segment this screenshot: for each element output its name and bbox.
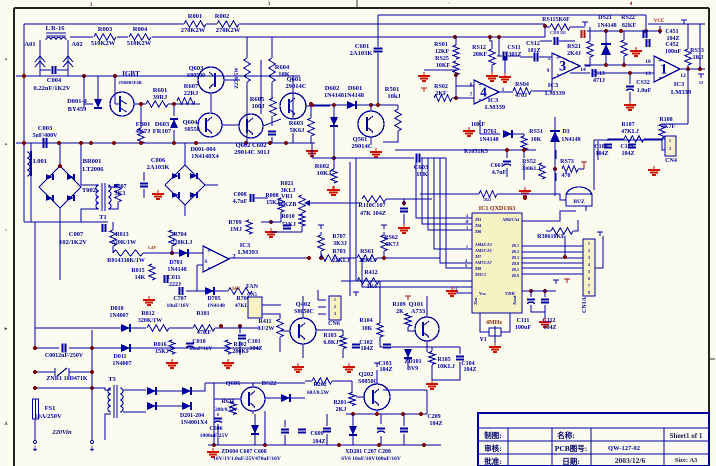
svg-text:C661: C661: [490, 163, 503, 169]
svg-text:14K: 14K: [135, 275, 146, 281]
svg-text:1: 1: [588, 241, 590, 246]
svg-text:Size: A3: Size: A3: [675, 457, 698, 464]
svg-text:C318 331: C318 331: [550, 30, 566, 35]
svg-text:6: 6: [470, 82, 473, 88]
svg-text:3: 3: [559, 59, 566, 75]
svg-text:IC3: IC3: [488, 97, 499, 104]
svg-text:Q604: Q604: [183, 119, 199, 126]
svg-text:批准:: 批准:: [484, 456, 502, 466]
svg-text:R603: R603: [289, 120, 304, 127]
svg-text:S8050C: S8050C: [294, 309, 314, 315]
svg-text:1MJ: 1MJ: [230, 227, 242, 233]
svg-text:2A103K: 2A103K: [350, 50, 373, 57]
svg-text:22KLJ: 22KLJ: [332, 258, 350, 264]
svg-text:AM4/CA4: AM4/CA4: [502, 218, 519, 222]
svg-text:C101: C101: [247, 339, 260, 345]
svg-text:1N4001X4: 1N4001X4: [181, 420, 208, 426]
svg-text:102/1K2V: 102/1K2V: [59, 239, 87, 246]
svg-text:i8: i8: [465, 219, 468, 224]
svg-text:10K: 10K: [278, 71, 290, 78]
svg-text:CN1A: CN1A: [582, 296, 588, 313]
svg-text:CS12: CS12: [526, 41, 540, 47]
svg-text:Z270.5W: Z270.5W: [234, 67, 240, 89]
svg-text:Z03C1: Z03C1: [475, 273, 486, 277]
svg-text:AM5/CA5: AM5/CA5: [475, 249, 492, 253]
svg-text:ZNR1 10D471K: ZNR1 10D471K: [46, 376, 88, 382]
svg-text:2: 2: [669, 146, 671, 151]
svg-text:R605: R605: [250, 96, 265, 103]
svg-text:4.7uF: 4.7uF: [492, 170, 507, 176]
svg-text:R013: R013: [115, 232, 128, 238]
svg-text:1: 1: [669, 138, 671, 143]
svg-text:D705: D705: [207, 296, 220, 302]
svg-text:Z0.8: Z0.8: [512, 262, 519, 266]
svg-text:1N4148X4: 1N4148X4: [191, 153, 219, 160]
svg-text:⏚: ⏚: [32, 446, 38, 453]
svg-text:4: 4: [588, 262, 590, 267]
svg-text:104Z: 104Z: [621, 151, 634, 157]
svg-text:R021: R021: [280, 181, 293, 187]
svg-text:IC3: IC3: [240, 242, 251, 249]
svg-text:VR1: VR1: [281, 194, 293, 200]
svg-text:1N41481N4148: 1N41481N4148: [324, 92, 364, 99]
svg-text:47K 104Z: 47K 104Z: [360, 210, 386, 217]
svg-text:C011: C011: [167, 275, 180, 281]
svg-text:5: 5: [588, 269, 590, 274]
svg-text:C112: C112: [542, 318, 555, 324]
svg-text:R411: R411: [258, 319, 271, 325]
svg-text:CN6: CN6: [328, 321, 340, 327]
svg-text:20KF: 20KF: [473, 52, 488, 58]
svg-text:CN4: CN4: [665, 158, 677, 164]
svg-text:1.4V: 1.4V: [148, 245, 158, 250]
svg-text:C707: C707: [173, 296, 186, 302]
svg-text:301Z: 301Z: [508, 52, 521, 58]
svg-text:FAN: FAN: [246, 284, 259, 290]
svg-text:T3: T3: [108, 376, 116, 383]
svg-text:100uF: 100uF: [665, 49, 681, 55]
svg-text:R704: R704: [173, 232, 186, 238]
svg-text:104Z: 104Z: [379, 367, 392, 373]
svg-text:Z00: Z00: [475, 230, 481, 234]
svg-text:29014C: 29014C: [286, 83, 307, 90]
svg-text:R016: R016: [153, 342, 166, 348]
svg-text:D201-204: D201-204: [180, 413, 204, 419]
svg-text:D001-004: D001-004: [190, 146, 215, 153]
svg-text:7: 7: [470, 92, 473, 98]
svg-text:FS1: FS1: [45, 405, 56, 412]
svg-text:Vss: Vss: [479, 291, 486, 296]
svg-text:12: 12: [680, 73, 686, 79]
svg-text:L001: L001: [33, 158, 47, 165]
svg-text:A02: A02: [71, 41, 82, 48]
svg-text:RS04: RS04: [515, 82, 529, 88]
svg-text:10uF/16V: 10uF/16V: [167, 303, 190, 309]
svg-text:471J: 471J: [593, 78, 605, 84]
svg-text:C609: C609: [310, 431, 323, 437]
svg-text:R607: R607: [184, 83, 199, 90]
svg-text:S80500: S80500: [187, 73, 205, 79]
svg-text:S: S: [204, 259, 207, 265]
svg-text:AM7/CA7: AM7/CA7: [475, 261, 492, 265]
svg-text:104Z: 104Z: [463, 367, 476, 373]
svg-text:FB01: FB01: [136, 121, 151, 128]
svg-text:15: 15: [699, 80, 704, 85]
svg-text:BR001: BR001: [83, 158, 102, 165]
svg-text:1N4148: 1N4148: [597, 23, 616, 29]
svg-text:Z0.1: Z0.1: [512, 244, 519, 248]
svg-text:▸: ▸: [4, 327, 8, 332]
svg-text:C209: C209: [427, 414, 440, 420]
svg-text:510K2W: 510K2W: [91, 40, 116, 47]
svg-text:RS115K6F: RS115K6F: [542, 17, 570, 23]
svg-text:RS12: RS12: [472, 45, 486, 51]
svg-text:CS32: CS32: [636, 80, 650, 86]
svg-text:R004: R004: [133, 26, 148, 33]
svg-text:VCC: VCC: [654, 19, 665, 24]
svg-text:C003: C003: [38, 125, 53, 132]
svg-text:1N4148: 1N4148: [479, 137, 498, 143]
svg-text:3: 3: [334, 311, 336, 316]
svg-text:-: -: [208, 263, 211, 272]
svg-text:S8550: S8550: [184, 127, 199, 133]
svg-text:1N4148: 1N4148: [207, 303, 225, 309]
svg-text:R109: R109: [392, 302, 405, 308]
svg-text:5: 5: [548, 56, 551, 62]
svg-text:3K3: 3K3: [115, 191, 126, 197]
svg-text:D3: D3: [562, 129, 569, 135]
svg-text:22RJ: 22RJ: [184, 90, 199, 97]
svg-text:4K7J: 4K7J: [385, 242, 399, 248]
svg-text:▪: ▪: [5, 142, 7, 148]
svg-text:6: 6: [465, 263, 467, 268]
svg-text:BUZ: BUZ: [573, 199, 585, 205]
svg-text:+: +: [207, 247, 211, 255]
svg-text:Q202: Q202: [359, 371, 374, 378]
svg-text:2003/12/6: 2003/12/6: [615, 456, 646, 465]
svg-text:R707: R707: [332, 234, 345, 240]
svg-text:Z0.9: Z0.9: [512, 274, 519, 278]
svg-text:R601: R601: [153, 87, 167, 94]
svg-text:10KF: 10KF: [471, 122, 486, 128]
svg-text:1N4148: 1N4148: [167, 267, 186, 273]
svg-text:D602: D602: [325, 85, 339, 92]
svg-text:104Z: 104Z: [249, 346, 262, 352]
svg-text:5K6J: 5K6J: [290, 127, 306, 134]
svg-text:FR107: FR107: [153, 128, 172, 135]
svg-text:29014C: 29014C: [352, 143, 373, 150]
svg-text:Xin: Xin: [473, 298, 478, 306]
svg-text:470: 470: [562, 173, 571, 179]
svg-text:82KF: 82KF: [622, 23, 637, 29]
svg-text:R201: R201: [333, 400, 346, 406]
svg-text:2: 2: [334, 304, 336, 309]
svg-text:RS21: RS21: [567, 44, 581, 50]
svg-text:9: 9: [547, 68, 550, 74]
svg-text:R010: R010: [281, 214, 294, 220]
svg-text:Z07: Z07: [475, 255, 481, 259]
svg-text:IC3: IC3: [548, 82, 559, 89]
svg-text:RS25: RS25: [435, 56, 449, 62]
svg-text:104Z: 104Z: [595, 151, 608, 157]
svg-text:29014C 301J: 29014C 301J: [234, 149, 270, 156]
svg-text:4.7uF: 4.7uF: [233, 199, 248, 205]
svg-text:10KJ: 10KJ: [317, 170, 333, 177]
svg-text:R003: R003: [98, 26, 113, 33]
svg-text:1N4007: 1N4007: [112, 361, 131, 367]
svg-text:15KJ: 15KJ: [266, 200, 280, 206]
svg-text:AM4/CA3: AM4/CA3: [475, 243, 492, 247]
svg-text:2K4J: 2K4J: [567, 51, 581, 57]
svg-text:C452: C452: [665, 42, 678, 48]
svg-text:2A103K: 2A103K: [147, 164, 170, 171]
svg-text:VDD: VDD: [505, 291, 515, 296]
svg-text:R002: R002: [215, 13, 229, 20]
svg-text:104Z: 104Z: [312, 439, 325, 445]
svg-text:13: 13: [645, 71, 651, 77]
svg-text:T002: T002: [82, 187, 96, 194]
svg-text:Z04: Z04: [475, 224, 481, 228]
svg-text:R110C107: R110C107: [358, 202, 385, 209]
svg-text:C008: C008: [233, 192, 246, 198]
svg-text:Sheet1 of 1: Sheet1 of 1: [670, 432, 703, 440]
svg-text:3: 3: [466, 225, 468, 230]
svg-text:1N4007: 1N4007: [109, 313, 128, 319]
svg-text:1: 1: [466, 244, 468, 249]
svg-text:220Vin: 220Vin: [51, 429, 72, 436]
svg-text:A01: A01: [24, 41, 35, 48]
svg-text:16V/1V1.0uF/25V470uF/16V: 16V/1V1.0uF/25V470uF/16V: [213, 456, 281, 462]
svg-text:C010: C010: [192, 339, 205, 345]
svg-text:14: 14: [580, 67, 586, 73]
svg-text:SV6 10uF/16V100uF/16V: SV6 10uF/16V100uF/16V: [341, 456, 401, 462]
svg-text:1N4148: 1N4148: [561, 137, 580, 143]
svg-text:2N60B5F4B: 2N60B5F4B: [118, 80, 141, 85]
svg-text:日期:: 日期:: [562, 456, 580, 466]
svg-text:2: 2: [588, 248, 590, 253]
svg-text:R014330K/1W: R014330K/1W: [107, 258, 145, 264]
svg-text:Y1: Y1: [479, 337, 486, 343]
svg-text:Q561: Q561: [353, 136, 368, 143]
svg-text:Z08: Z08: [475, 267, 481, 271]
svg-text:名称:: 名称:: [557, 430, 575, 440]
svg-text:100J: 100J: [252, 103, 266, 110]
svg-text:+: +: [478, 81, 482, 89]
svg-text:L R-16: L R-16: [46, 25, 66, 32]
svg-text:6: 6: [588, 276, 590, 281]
svg-text:10K: 10K: [531, 137, 542, 143]
svg-text:RS02: RS02: [434, 84, 448, 90]
svg-text:R703: R703: [332, 249, 345, 255]
svg-text:-: -: [659, 73, 662, 82]
svg-text:510K2W: 510K2W: [127, 40, 152, 47]
svg-text:1.0uF: 1.0uF: [637, 88, 652, 94]
svg-text:47KF: 47KF: [197, 330, 212, 336]
svg-text:10KLJ: 10KLJ: [437, 364, 455, 370]
svg-text:RS62: RS62: [384, 235, 398, 241]
svg-text:8: 8: [588, 290, 590, 295]
svg-text:制图:: 制图:: [484, 430, 502, 440]
svg-text:Z0.3: Z0.3: [512, 256, 519, 260]
svg-text:1KJ: 1KJ: [693, 55, 704, 61]
svg-text:1: 1: [334, 297, 336, 302]
svg-text:R30610KF: R30610KF: [537, 234, 565, 240]
svg-text:2K: 2K: [396, 309, 404, 315]
svg-text:3: 3: [588, 255, 590, 260]
svg-text:IC1 QXD1363: IC1 QXD1363: [479, 206, 516, 212]
svg-text:R602: R602: [315, 163, 329, 170]
svg-text:Q101: Q101: [409, 301, 424, 308]
svg-text:D601: D601: [348, 85, 362, 92]
svg-text:R012: R012: [141, 311, 154, 317]
svg-text:R107: R107: [621, 122, 634, 128]
svg-text:R015: R015: [131, 268, 144, 274]
svg-text:R101: R101: [196, 311, 209, 317]
svg-text:+: +: [658, 57, 662, 65]
svg-text:3J/2W: 3J/2W: [258, 326, 275, 332]
svg-text:1822: 1822: [483, 197, 491, 202]
svg-text:RS22: RS22: [621, 15, 635, 21]
svg-text:0.22uF/1K2V: 0.22uF/1K2V: [33, 85, 70, 92]
svg-text:R008: R008: [265, 193, 278, 199]
svg-text:6.8KJ: 6.8KJ: [323, 340, 338, 346]
svg-text:104Z: 104Z: [543, 325, 556, 331]
svg-text:10: 10: [645, 59, 651, 65]
svg-text:ZD101: ZD101: [404, 359, 421, 365]
svg-text:C451: C451: [665, 29, 678, 35]
svg-text:104Z: 104Z: [429, 421, 442, 427]
svg-text:D603: D603: [155, 121, 170, 128]
svg-text:D701: D701: [169, 260, 182, 266]
svg-text:2: 2: [232, 253, 235, 260]
svg-text:D010: D010: [110, 306, 123, 312]
svg-text:R105: R105: [437, 357, 450, 363]
svg-text:D011: D011: [113, 354, 126, 360]
svg-text:▫: ▫: [5, 228, 7, 234]
svg-text:10uF/16V: 10uF/16V: [190, 346, 213, 352]
svg-text:10kJ: 10kJ: [387, 93, 401, 100]
svg-text:DS21: DS21: [598, 15, 612, 21]
svg-text:C601: C601: [355, 43, 369, 50]
svg-text:ZD604 C607 C608: ZD604 C607 C608: [221, 449, 267, 455]
svg-text:CS11: CS11: [507, 45, 520, 51]
svg-text:RS73: RS73: [560, 159, 574, 165]
svg-text:LM339: LM339: [545, 90, 566, 97]
svg-text:200KF: 200KF: [232, 349, 250, 355]
svg-text:LM339: LM339: [485, 104, 506, 111]
svg-text:270K2W: 270K2W: [181, 27, 206, 34]
svg-text:3K3J: 3K3J: [333, 241, 347, 247]
svg-text:-: -: [479, 95, 482, 104]
svg-text:LM393: LM393: [238, 249, 259, 256]
svg-text:R104: R104: [359, 318, 372, 324]
svg-text:68J/0.5W: 68J/0.5W: [307, 390, 330, 396]
svg-text:+1: +1: [453, 286, 457, 291]
svg-text:2KJ: 2KJ: [336, 407, 347, 413]
svg-text:Q602 C602: Q602 C602: [236, 142, 267, 149]
svg-text:15KJ: 15KJ: [155, 349, 169, 355]
svg-text:5uF/400V: 5uF/400V: [32, 133, 58, 139]
svg-text:RS01: RS01: [434, 42, 448, 48]
svg-text:14V: 14V: [232, 287, 241, 292]
svg-text:4: 4: [466, 213, 468, 218]
svg-text:A733: A733: [411, 308, 426, 315]
svg-text:QW-127-02: QW-127-02: [608, 445, 640, 452]
svg-text:R1051K5: R1051K5: [464, 149, 488, 155]
svg-text:LT2006: LT2006: [82, 166, 104, 173]
svg-text:C004: C004: [47, 77, 62, 84]
svg-text:⏚: ⏚: [89, 446, 95, 453]
svg-text:IC3: IC3: [674, 81, 685, 88]
svg-text:10K: 10K: [362, 326, 373, 332]
svg-text:审核:: 审核:: [484, 443, 502, 453]
svg-text:XD201 C207 C208: XD201 C207 C208: [345, 449, 391, 455]
svg-text:T1: T1: [99, 214, 107, 221]
svg-text:12KF: 12KF: [435, 49, 450, 55]
svg-text:R103: R103: [323, 333, 336, 339]
svg-text:10KF: 10KF: [436, 63, 451, 69]
svg-text:3K6: 3K6: [367, 284, 378, 290]
svg-text:C007: C007: [69, 231, 84, 238]
svg-text:104Z: 104Z: [360, 346, 373, 352]
svg-text:47KLJ: 47KLJ: [621, 129, 639, 135]
svg-text:R001: R001: [188, 13, 202, 20]
svg-text:+: +: [556, 54, 560, 62]
svg-text:C606: C606: [209, 426, 222, 432]
svg-text:-: -: [557, 70, 560, 79]
svg-text:C0012uF/250V: C0012uF/250V: [45, 353, 84, 359]
svg-text:Z0.2: Z0.2: [512, 250, 519, 254]
svg-text:3V9: 3V9: [408, 366, 418, 372]
svg-text:R501: R501: [385, 86, 399, 93]
svg-text:51KJ: 51KJ: [282, 222, 296, 228]
svg-text:320K/1W: 320K/1W: [138, 318, 162, 324]
svg-text:LM339: LM339: [671, 89, 692, 96]
svg-text:270K2W: 270K2W: [216, 27, 241, 34]
svg-text:10A/250V: 10A/250V: [34, 413, 62, 420]
svg-text:C006: C006: [151, 157, 166, 164]
svg-text:PCB图号:: PCB图号:: [555, 444, 588, 453]
svg-text:RS51: RS51: [529, 129, 543, 135]
svg-text:Xout: Xout: [512, 295, 517, 305]
svg-text:R412: R412: [364, 270, 377, 276]
svg-text:R108: R108: [659, 117, 672, 123]
svg-text:Z0.5: Z0.5: [512, 268, 519, 272]
svg-text:R709: R709: [228, 220, 241, 226]
svg-text:CN5: CN5: [247, 293, 257, 298]
svg-text:R604: R604: [275, 64, 290, 71]
svg-text:▪: ▪: [5, 57, 7, 63]
svg-text:IGBT: IGBT: [122, 70, 140, 78]
svg-text:C111: C111: [517, 318, 530, 324]
svg-text:100uF: 100uF: [515, 325, 531, 331]
svg-text:7: 7: [588, 283, 590, 288]
svg-text:39RJ: 39RJ: [153, 94, 168, 101]
svg-text:4MHz: 4MHz: [486, 320, 502, 326]
svg-text:Z01: Z01: [475, 218, 481, 222]
